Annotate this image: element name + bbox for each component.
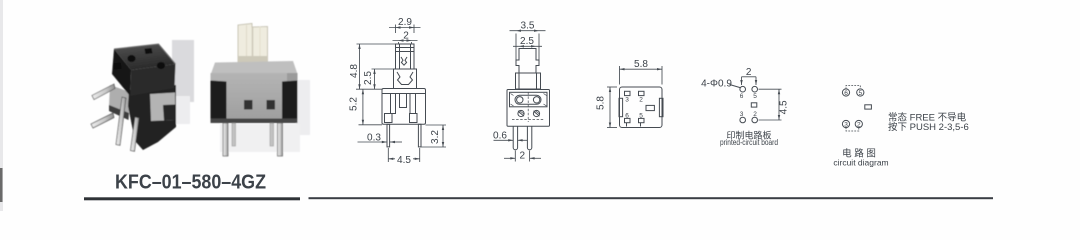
arrowheads d1 (396, 26, 401, 28)
d5 top link wire (846, 86, 860, 90)
svg-text:2.9: 2.9 (398, 17, 412, 28)
photo 2 backdrop shadow (296, 80, 310, 135)
d5 bottom link wire (846, 127, 859, 131)
svg-text:按下 PUSH 2-3,5-6: 按下 PUSH 2-3,5-6 (888, 121, 969, 133)
svg-text:5.8: 5.8 (634, 59, 648, 70)
d2 body (507, 90, 550, 127)
photo 1 pin B (91, 113, 114, 128)
d3 pad 5 (639, 118, 645, 122)
d4 orientation slot (751, 103, 757, 107)
d3 left notch (619, 98, 623, 116)
d4 hole 5 (752, 86, 758, 92)
d1 plunger stem (396, 44, 415, 69)
photo 1 pin D (131, 117, 140, 151)
photo 2 body bottom strip (211, 119, 298, 124)
photo 2 body front face (211, 73, 298, 122)
d2 slot circle right (533, 97, 539, 103)
d4 hole 3 (740, 117, 746, 123)
d5 movable contact (865, 105, 872, 109)
svg-text:circuit diagram: circuit diagram (833, 158, 888, 168)
long separator line (309, 197, 994, 199)
photo 1 pin A (92, 84, 115, 100)
photo 1 cap top face (114, 44, 176, 70)
svg-text:4.5: 4.5 (779, 100, 790, 114)
svg-text:2: 2 (753, 111, 757, 118)
photo 2 corner block left (211, 81, 227, 123)
dim 4.5 lines d4 (759, 88, 782, 90)
dim 4.5 lines (387, 148, 389, 162)
d2 contact slot (stadium) (515, 95, 541, 104)
d2 lower contact left (518, 110, 524, 116)
d3 pad 2 (639, 91, 645, 95)
dim 0.3 leader (358, 141, 387, 143)
arrowheads d2 (516, 30, 521, 32)
d5 terminal 3 (842, 120, 849, 127)
photo: switch sample 1 (black, angled) (91, 40, 194, 151)
d1 body (382, 89, 426, 125)
dim 2.5 line (374, 69, 376, 89)
d2 pin right (527, 126, 531, 150)
svg-text:2.5: 2.5 (520, 36, 534, 47)
svg-text:0.3: 0.3 (367, 133, 381, 144)
d3 orientation slot (646, 105, 654, 110)
svg-text:3.2: 3.2 (430, 130, 441, 144)
d3 outline (620, 87, 663, 128)
d4 hole 2 (752, 117, 758, 123)
d1 foot left (385, 114, 393, 123)
dim 2 bracket d4 (742, 76, 757, 78)
photo 1 pin C (116, 97, 126, 145)
photo 1 cap square hole C (114, 63, 122, 70)
d3 pad 3 (625, 91, 631, 95)
dim 2 bracket d2 (514, 151, 516, 162)
dim 5.8 top lines (619, 66, 621, 85)
svg-text:3.5: 3.5 (521, 21, 535, 32)
svg-text:printed-circuit board: printed-circuit board (720, 137, 778, 147)
photo 2 body side shade (287, 73, 298, 122)
photo 2 corner block right (282, 81, 298, 123)
photo 2 front hole right (267, 100, 276, 110)
photo 1 cap round hole A (128, 55, 136, 62)
photo 1 cap left face (112, 49, 131, 96)
d3 right notch (659, 98, 663, 116)
photo 1 base left face (109, 85, 130, 114)
d2 lower contact right (533, 110, 539, 116)
photo 2 rear pin right (270, 123, 274, 146)
d3 pad tabs (626, 123, 628, 127)
photo 1 cap front face (130, 64, 176, 96)
d1 pin left (387, 124, 390, 147)
photo 2 rear pin left (232, 123, 236, 146)
photo: switch sample 2 (upright, white plunger) (211, 24, 311, 157)
d3 pad 6 (625, 118, 631, 122)
dim 3.2 lines (426, 124, 447, 126)
dim 4.8 line (359, 44, 361, 89)
svg-text:0.6: 0.6 (493, 131, 507, 142)
photo 2 plunger (238, 24, 268, 63)
d2 pin left (513, 126, 517, 150)
dim 2.5 line d2 (513, 45, 542, 47)
svg-text:5: 5 (639, 113, 643, 120)
svg-text:3: 3 (740, 111, 744, 118)
dim 2.9 lines (395, 25, 397, 34)
title underline (84, 197, 300, 200)
svg-text:5.2: 5.2 (349, 97, 360, 111)
photo 2 pin right (278, 123, 283, 156)
left edge scan artifact (0, 0, 3, 211)
svg-text:6: 6 (740, 93, 744, 100)
d2 plunger (516, 49, 539, 74)
svg-text:5: 5 (753, 93, 757, 100)
photo 1 backdrop shadow (172, 40, 194, 102)
d4 hole 6 (740, 86, 746, 92)
d5 terminal 6 (842, 89, 849, 96)
dim 2 line (393, 40, 418, 42)
svg-text:5: 5 (858, 90, 862, 97)
svg-text:3: 3 (625, 97, 629, 104)
d2 slot circle left (517, 97, 523, 103)
d5 terminal 2 (855, 120, 862, 127)
photo 1 base recess hole (163, 105, 176, 121)
photo 2 front hole left (244, 100, 253, 110)
svg-text:6: 6 (625, 113, 629, 120)
svg-text:2: 2 (746, 67, 752, 78)
svg-text:2: 2 (520, 151, 526, 162)
photo 1 cap round hole B (157, 62, 165, 69)
photo 2 body top face (211, 61, 298, 75)
photo 1 base recess patch (150, 93, 176, 122)
d1 foot right (410, 114, 418, 123)
photo 1 base dark front (128, 85, 176, 150)
d2 collar (516, 73, 541, 89)
svg-text:2: 2 (857, 121, 861, 128)
svg-text:2: 2 (639, 97, 643, 104)
d2 inner top band (510, 92, 548, 107)
d1 neck (394, 69, 417, 89)
dim 3.5 lines (515, 34, 517, 60)
svg-text:KFC–01–580–4GZ: KFC–01–580–4GZ (115, 172, 266, 194)
photo 1 cap square hole D (145, 48, 153, 54)
svg-text:5.8: 5.8 (596, 96, 607, 110)
d1 pin right (418, 124, 421, 147)
photo 1 base lower-left dark edge (109, 105, 129, 120)
svg-text:4.8: 4.8 (349, 64, 360, 78)
svg-text:3: 3 (844, 121, 848, 128)
svg-text:4.5: 4.5 (397, 155, 411, 166)
svg-text:4-Φ0.9: 4-Φ0.9 (701, 79, 732, 90)
d4 leader 4-phi0.9 (730, 85, 741, 88)
dim 5.8 left lines (607, 86, 617, 88)
photo 2 pin left (223, 123, 228, 156)
dim 4.8/2.5/5.2 extension lines (357, 43, 396, 45)
svg-text:6: 6 (844, 90, 848, 97)
d2 hatch marks (511, 94, 547, 107)
svg-text:2: 2 (403, 31, 409, 42)
d5 terminal 5 (857, 89, 864, 96)
dim 5.2 line (362, 89, 364, 125)
svg-text:2.5: 2.5 (363, 71, 374, 85)
dim 0.6 leader (494, 139, 514, 141)
